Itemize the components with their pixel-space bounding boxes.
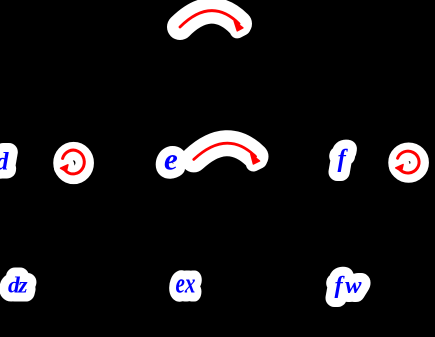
self-loop at f (red) xyxy=(398,151,419,173)
svg-text:e: e xyxy=(164,141,178,176)
arrowhead of d loop xyxy=(61,165,68,172)
arrowhead of f loop xyxy=(396,165,403,172)
self-loop at d (red) xyxy=(63,150,419,174)
halo: self-loop at d xyxy=(63,151,85,175)
halo: arc e->f xyxy=(194,143,256,159)
svg-text:d: d xyxy=(0,149,9,176)
arrowhead of top arc xyxy=(234,21,243,31)
arrowhead of e->f arc xyxy=(251,154,260,164)
halo: self-loop at f xyxy=(398,152,420,174)
edge: arc e->f (red) xyxy=(194,143,256,159)
node d xyxy=(0,141,362,299)
halo: arrowheads xyxy=(234,21,259,164)
halo: labels xyxy=(0,141,362,299)
svg-text:fw: fw xyxy=(335,272,363,299)
edge: top arc (red) xyxy=(180,11,256,160)
svg-text:dz: dz xyxy=(8,272,28,298)
halo: top arc xyxy=(63,11,420,175)
svg-text:ex: ex xyxy=(176,269,196,300)
